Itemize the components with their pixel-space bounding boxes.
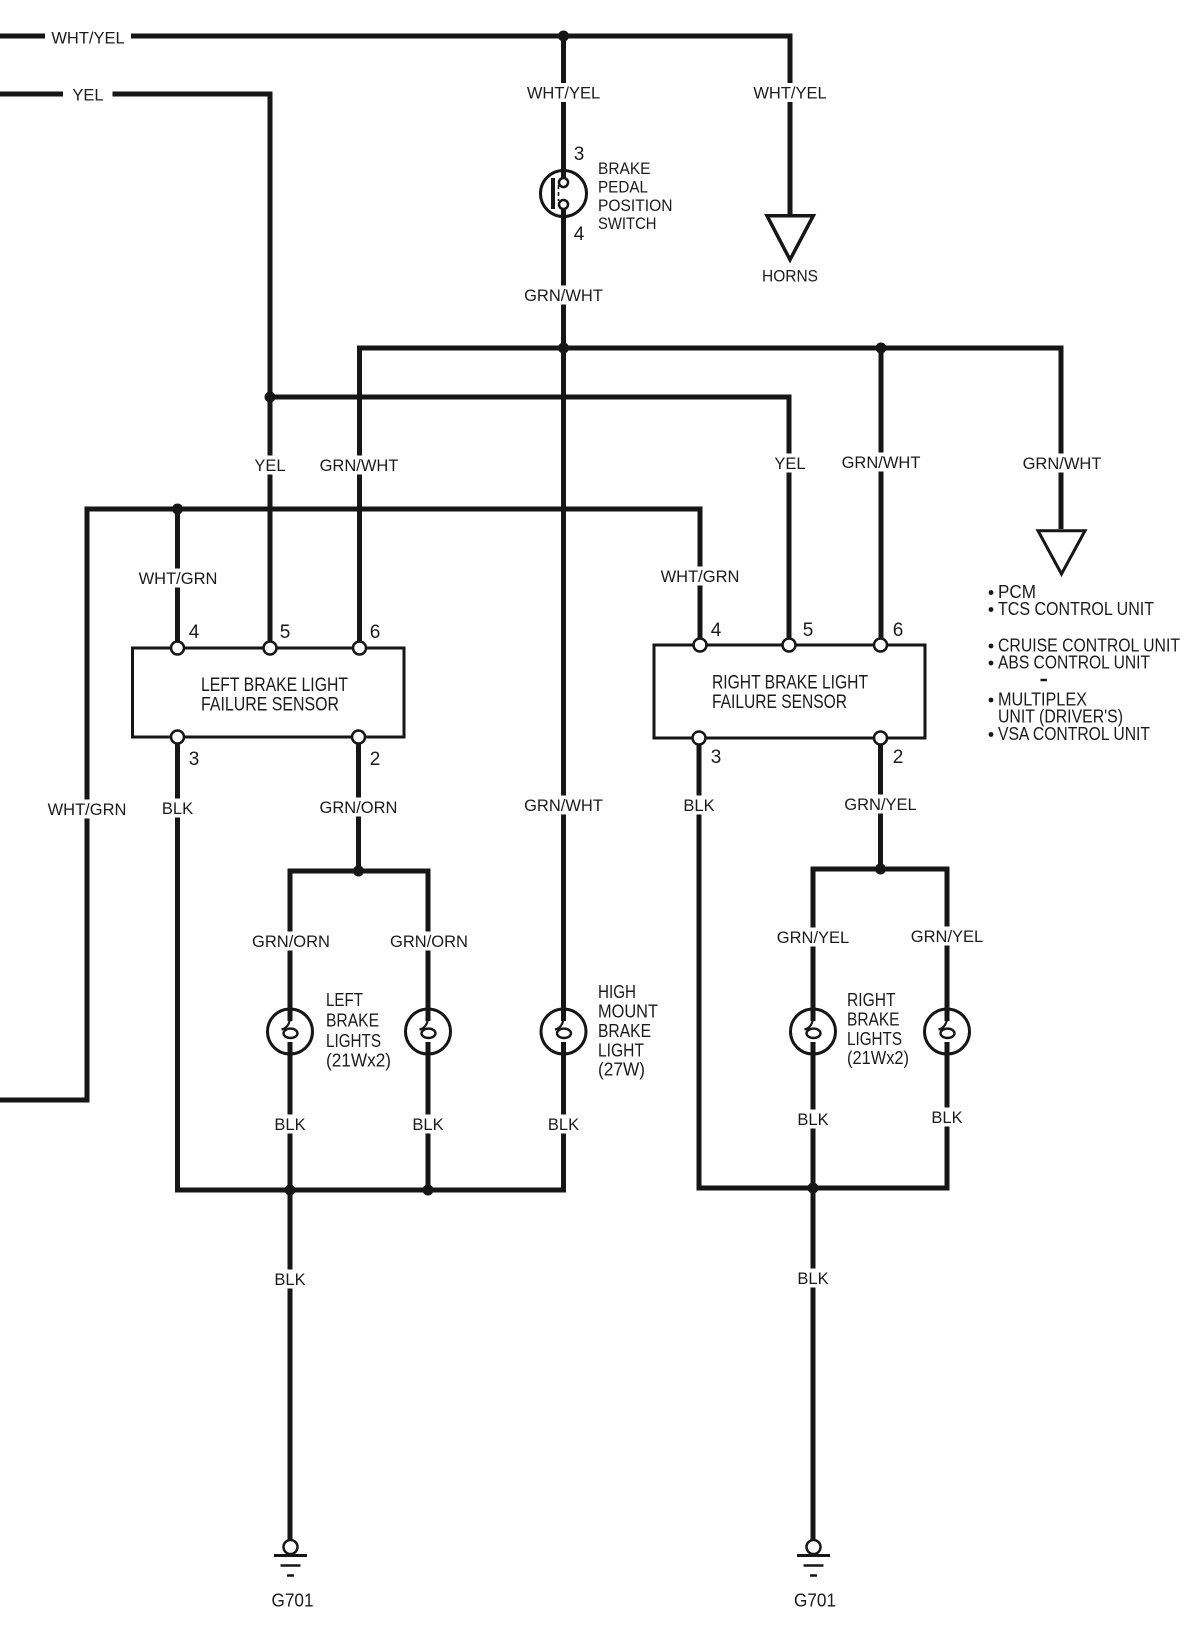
wire BLK below right bulb 2 [945,1042,950,1191]
junction node GRN/YEL split [875,864,886,875]
svg-text:GRN/WHT: GRN/WHT [1023,455,1102,473]
junction node GRN/WHT at right sensor drop [876,343,887,354]
svg-text:BLK: BLK [548,1116,579,1134]
wire GRN/WHT horizontal distribution bus [360,348,1064,642]
high mount brake light bulb symbol [541,1009,586,1054]
wire BLK from left sensor pin 3 [175,744,180,1193]
wire label GRN/YEL from pin 2 [844,795,918,815]
wire GRN/WHT to control units arrow [1059,346,1064,530]
wire GRN/YEL branch bus to right brake bulbs [813,869,947,1021]
wire label WHT/YEL at switch [524,83,604,103]
wire GRN/ORN from left sensor pin 2 [356,744,361,872]
wire label BLK right pin 3 [682,796,716,816]
left sensor pin 2 terminal [352,731,365,744]
control units destination list [989,582,1180,744]
left sensor pin 3 terminal [171,731,184,744]
right sensor pin 2 terminal [874,732,887,745]
wire BLK from right sensor pin 3 [697,745,702,1191]
wire label YEL feed [64,85,113,105]
wire WHT/YEL feed from left edge [0,34,793,39]
wire label GRN/WHT at right sensor [841,453,922,473]
wire GRN/ORN branch bus to left brake bulbs [290,871,428,1021]
brake pedal position switch symbol [541,171,587,217]
stray dash mark under ABS line [1041,679,1048,682]
wire label GRN/WHT at left sensor [319,456,400,476]
wire label BLK below right bulb 2 [930,1108,964,1128]
wire BLK ground bus left [175,1188,566,1193]
wire YEL feed from left edge [0,94,270,642]
wire label BLK left pin 3 [161,799,195,819]
wire BLK below left bulb 2 [426,1042,431,1193]
svg-text:HORNS: HORNS [762,268,818,286]
svg-text:6: 6 [893,620,904,641]
left brake light 1 bulb symbol [268,1009,313,1054]
svg-text:BLK: BLK [412,1116,443,1134]
svg-text:LIGHT: LIGHT [598,1041,644,1061]
wire label BLK below left bulb 1 [273,1115,307,1135]
left brake light failure sensor box [133,648,405,737]
svg-text:GRN/WHT: GRN/WHT [842,454,921,472]
svg-text:BLK: BLK [931,1109,962,1127]
wire label WHT/GRN left edge [46,800,129,820]
wire label BLK below left bulb 2 [411,1115,445,1135]
svg-text:WHT/YEL: WHT/YEL [51,30,124,48]
svg-text:BLK: BLK [797,1111,828,1129]
wire BLK ground bus right [697,1186,950,1191]
right sensor pin 3 terminal [693,732,706,745]
wire label BLK below high mount [547,1115,581,1135]
svg-text:BLK: BLK [162,800,193,818]
svg-text:WHT/YEL: WHT/YEL [753,85,826,103]
control units arrow connector [1038,531,1085,574]
wire WHT/GRN to left sensor pin 4 [175,509,180,642]
svg-text:HIGH: HIGH [598,982,636,1002]
junction node YEL branch [265,392,276,403]
svg-text:FAILURE SENSOR: FAILURE SENSOR [712,691,847,713]
ground G701 left symbol [274,1540,307,1576]
wire label WHT/YEL feed [48,28,128,48]
wire label BLK below right bulb 1 [796,1110,830,1130]
junction node GRN/ORN split [353,866,364,877]
svg-text:6: 6 [370,622,381,643]
wire label GRN/ORN bulb 2 [390,932,469,952]
wire label YEL at right sensor [770,454,810,474]
svg-text:3: 3 [189,749,200,770]
svg-text:GRN/ORN: GRN/ORN [320,799,398,817]
svg-text:3: 3 [711,747,722,768]
svg-text:GRN/YEL: GRN/YEL [777,929,849,947]
svg-text:GRN/YEL: GRN/YEL [844,796,916,814]
wire WHT/YEL drop to horns arrow [788,34,793,216]
junction node WHT/GRN at left sensor [172,504,183,515]
svg-text:VSA CONTROL UNIT: VSA CONTROL UNIT [998,724,1150,744]
svg-text:LIGHTS: LIGHTS [847,1029,902,1049]
svg-text:G701: G701 [794,1591,836,1611]
wire WHT/GRN bus to left edge [0,509,700,1100]
svg-text:WHT/GRN: WHT/GRN [139,570,218,588]
svg-text:(21Wx2): (21Wx2) [847,1048,909,1068]
svg-text:GRN/WHT: GRN/WHT [320,457,399,475]
svg-text:BLK: BLK [683,797,714,815]
wire label WHT/GRN at left pin 4 [137,569,220,589]
junction node left ground bus 2 [423,1185,434,1196]
wire GRN/YEL from right sensor pin 2 [878,745,883,870]
wire BLK below high mount bulb [561,1042,566,1193]
right sensor pin 4 terminal [694,639,707,652]
wire GRN/WHT from brake switch pin 4 down to high mount light [561,209,566,1021]
right sensor pin 5 terminal [783,639,796,652]
svg-text:WHT/GRN: WHT/GRN [661,568,740,586]
svg-text:TCS CONTROL UNIT: TCS CONTROL UNIT [998,599,1154,619]
svg-text:GRN/WHT: GRN/WHT [524,797,603,815]
svg-text:2: 2 [370,749,381,770]
svg-text:MOUNT: MOUNT [598,1002,658,1022]
svg-text:5: 5 [280,622,291,643]
wire label BLK to left ground [273,1270,307,1290]
svg-text:YEL: YEL [774,455,805,473]
right brake light 1 bulb symbol [791,1009,836,1054]
svg-text:G701: G701 [272,1591,314,1611]
junction node right ground bus [808,1183,819,1194]
right brake light failure sensor box [654,645,925,738]
svg-text:YEL: YEL [254,457,285,475]
svg-text:4: 4 [711,620,722,641]
svg-text:BRAKE: BRAKE [326,1011,379,1031]
svg-text:(27W): (27W) [598,1060,645,1080]
wire label GRN/ORN bulb 1 [252,932,331,952]
wire label GRN/WHT high mount [523,796,604,816]
right brake light 2 bulb symbol [925,1009,970,1054]
svg-text:GRN/ORN: GRN/ORN [252,933,330,951]
svg-text:BRAKE: BRAKE [598,160,651,178]
svg-text:GRN/ORN: GRN/ORN [390,933,468,951]
svg-text:4: 4 [189,622,200,643]
wire label WHT/GRN at right pin 4 [659,567,742,587]
svg-text:WHT/GRN: WHT/GRN [48,801,127,819]
svg-text:RIGHT: RIGHT [847,990,896,1010]
wire label GRN/WHT below switch [523,286,604,306]
junction node GRN/WHT at high mount drop [558,343,569,354]
wire label GRN/YEL bulb 2 [910,927,984,947]
svg-text:FAILURE SENSOR: FAILURE SENSOR [201,694,339,716]
right sensor pin 6 terminal [874,639,887,652]
svg-text:BRAKE: BRAKE [847,1010,900,1030]
svg-text:5: 5 [803,620,814,641]
svg-text:GRN/YEL: GRN/YEL [911,928,983,946]
svg-text:4: 4 [574,224,585,245]
wire label WHT/YEL at horns [750,83,830,103]
svg-text:PEDAL: PEDAL [598,179,648,197]
wire label BLK to right ground [796,1269,830,1289]
wire label GRN/YEL bulb 1 [776,928,850,948]
wire BLK below left bulb 1 [288,1042,293,1540]
svg-text:ABS CONTROL UNIT: ABS CONTROL UNIT [998,653,1150,673]
wire BLK below right bulb 1 [811,1042,816,1540]
ground G701 right symbol [797,1540,830,1576]
svg-text:2: 2 [893,747,904,768]
svg-text:WHT/YEL: WHT/YEL [527,85,600,103]
svg-text:LEFT: LEFT [326,990,363,1010]
wire label YEL at left sensor [250,456,290,476]
wire WHT/YEL to brake switch pin 3 [561,34,566,179]
wire YEL branch to right sensor pin 5 [270,397,789,639]
svg-text:SWITCH: SWITCH [598,215,657,233]
svg-text:3: 3 [574,144,585,165]
svg-text:BLK: BLK [274,1271,305,1289]
svg-text:BLK: BLK [274,1116,305,1134]
wire GRN/WHT to right sensor pin 6 [879,346,884,639]
wire label GRN/ORN from pin 2 [319,798,398,818]
svg-text:BRAKE: BRAKE [598,1021,651,1041]
junction node left ground bus 1 [285,1185,296,1196]
left sensor pin 5 terminal [264,642,277,655]
svg-text:POSITION: POSITION [598,197,673,215]
wire label GRN/WHT at control units [1022,454,1103,474]
left sensor pin 6 terminal [353,642,366,655]
svg-text:GRN/WHT: GRN/WHT [524,287,603,305]
left brake light 2 bulb symbol [406,1009,451,1054]
junction node WHT/YEL tap for brake switch [558,31,569,42]
svg-text:BLK: BLK [797,1270,828,1288]
left sensor pin 4 terminal [171,642,184,655]
svg-text:(21Wx2): (21Wx2) [326,1051,391,1071]
horns arrow connector [767,216,813,260]
svg-text:LIGHTS: LIGHTS [326,1031,381,1051]
svg-text:YEL: YEL [72,87,103,105]
